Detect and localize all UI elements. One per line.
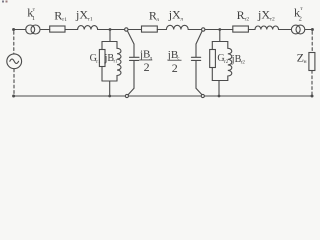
label GT2 [217, 53, 228, 65]
svg-text:т2: т2 [244, 17, 249, 23]
label GT1 [90, 53, 101, 65]
wire (cap 1 bottom slant) [128, 88, 134, 95]
wire dashed (load upper lead) [311, 32, 313, 53]
node J2 (shunt 2 tap) [218, 28, 221, 31]
svg-text:т1: т1 [62, 17, 67, 23]
svg-text:л: л [156, 17, 159, 23]
resistor RL [142, 26, 158, 32]
wire dashed (load lower lead) [311, 71, 313, 95]
wire [248, 29, 255, 31]
wire [279, 29, 292, 31]
inductor XL [166, 25, 188, 29]
wire (shunt 2 left arm) [211, 42, 213, 50]
resistor GT1 [99, 50, 105, 67]
wire (shunt 2 bottom stem) [218, 81, 220, 97]
svg-text:т1: т1 [96, 60, 101, 65]
resistor GT2 [210, 50, 216, 68]
wire (cap 1 top slant) [127, 31, 134, 44]
wire [128, 29, 141, 31]
svg-text:2: 2 [144, 60, 150, 74]
wire (shunt 2 stem) [219, 30, 221, 42]
resistor RT2 [233, 26, 249, 32]
wire [188, 29, 201, 31]
wire [157, 29, 166, 31]
node (source bottom terminal) [12, 95, 15, 98]
load Zn [309, 53, 315, 71]
wire [211, 68, 213, 81]
label RT2 [237, 8, 250, 23]
wire (cap 2 top slant) [196, 31, 202, 44]
wire (shunt 1 bottom stem) [109, 81, 111, 96]
wire [40, 29, 50, 31]
inductor XT1 [78, 26, 98, 30]
node J1 (shunt 1 tap) [109, 28, 112, 31]
wire [98, 29, 125, 31]
inductor BT1 [117, 42, 121, 82]
wire (shunt 1 stem) [109, 30, 111, 42]
svg-text:1: 1 [32, 15, 35, 22]
wire dashed (source upper lead) [13, 32, 15, 54]
wire (cap 2 bottom slant) [196, 88, 202, 95]
label RL [149, 8, 159, 23]
svg-text:т1: т1 [113, 60, 118, 65]
svg-text:т2: т2 [270, 17, 275, 23]
capacitor BL/2 no.1 [130, 44, 140, 88]
wire [305, 29, 312, 31]
svg-text:т1: т1 [88, 17, 93, 23]
label k1^T [27, 6, 35, 23]
svg-text:jX: jX [75, 8, 88, 22]
svg-text:т2: т2 [240, 61, 245, 66]
label jXL [168, 8, 184, 23]
svg-text:2: 2 [172, 61, 178, 75]
label jBT1 [104, 53, 119, 65]
inductor XT2 [255, 26, 279, 30]
svg-text:т2: т2 [224, 60, 229, 65]
wire (shunt 1 bottom bar) [102, 80, 117, 82]
node terminal A1 (open circle) [125, 28, 128, 31]
node (shunt 2 on rail) [218, 95, 221, 98]
transformer k1 [26, 25, 40, 34]
svg-text:2: 2 [299, 16, 302, 23]
node (shunt 1 on rail) [108, 95, 111, 98]
AC source G1 [7, 54, 22, 69]
speck top-left [2, 1, 8, 3]
node (load bottom terminal) [311, 95, 314, 98]
resistor RT1 [50, 26, 65, 32]
capacitor BL/2 no.2 [191, 44, 200, 88]
wire (shunt 2 bottom bar) [212, 80, 228, 82]
wire [101, 67, 103, 82]
label k2^T [294, 6, 303, 23]
node N1 (source top terminal) [12, 28, 15, 31]
wire (bottom rail) [14, 95, 313, 97]
wire (shunt 2 top bar) [212, 41, 228, 43]
node terminal A2 (open circle) [202, 28, 205, 31]
wire [14, 29, 26, 31]
node terminal B1 (open circle on rail) [125, 94, 128, 97]
label RT1 [54, 8, 67, 23]
wire (shunt 1 left arm) [101, 42, 103, 50]
label jXT2 [257, 8, 275, 23]
svg-text:н: н [304, 59, 307, 65]
svg-text:jX: jX [257, 8, 270, 22]
node terminal B2 (open circle on rail) [201, 94, 204, 97]
svg-text:jX: jX [168, 8, 181, 22]
label jXT1 [75, 8, 93, 23]
wire [65, 29, 78, 31]
label jBL/2 no.2 [167, 49, 182, 75]
transformer k2 [291, 25, 304, 34]
svg-text:л: л [180, 17, 183, 23]
wire [205, 29, 233, 31]
wire (shunt 1 top bar) [102, 41, 117, 43]
label jBL/2 no.1 [139, 49, 153, 74]
node N2 (load top terminal) [311, 28, 314, 31]
label jBT2 [231, 54, 246, 66]
inductor BT2 [228, 42, 232, 81]
label Zn [297, 50, 307, 65]
wire dashed (source lower lead) [13, 69, 15, 95]
